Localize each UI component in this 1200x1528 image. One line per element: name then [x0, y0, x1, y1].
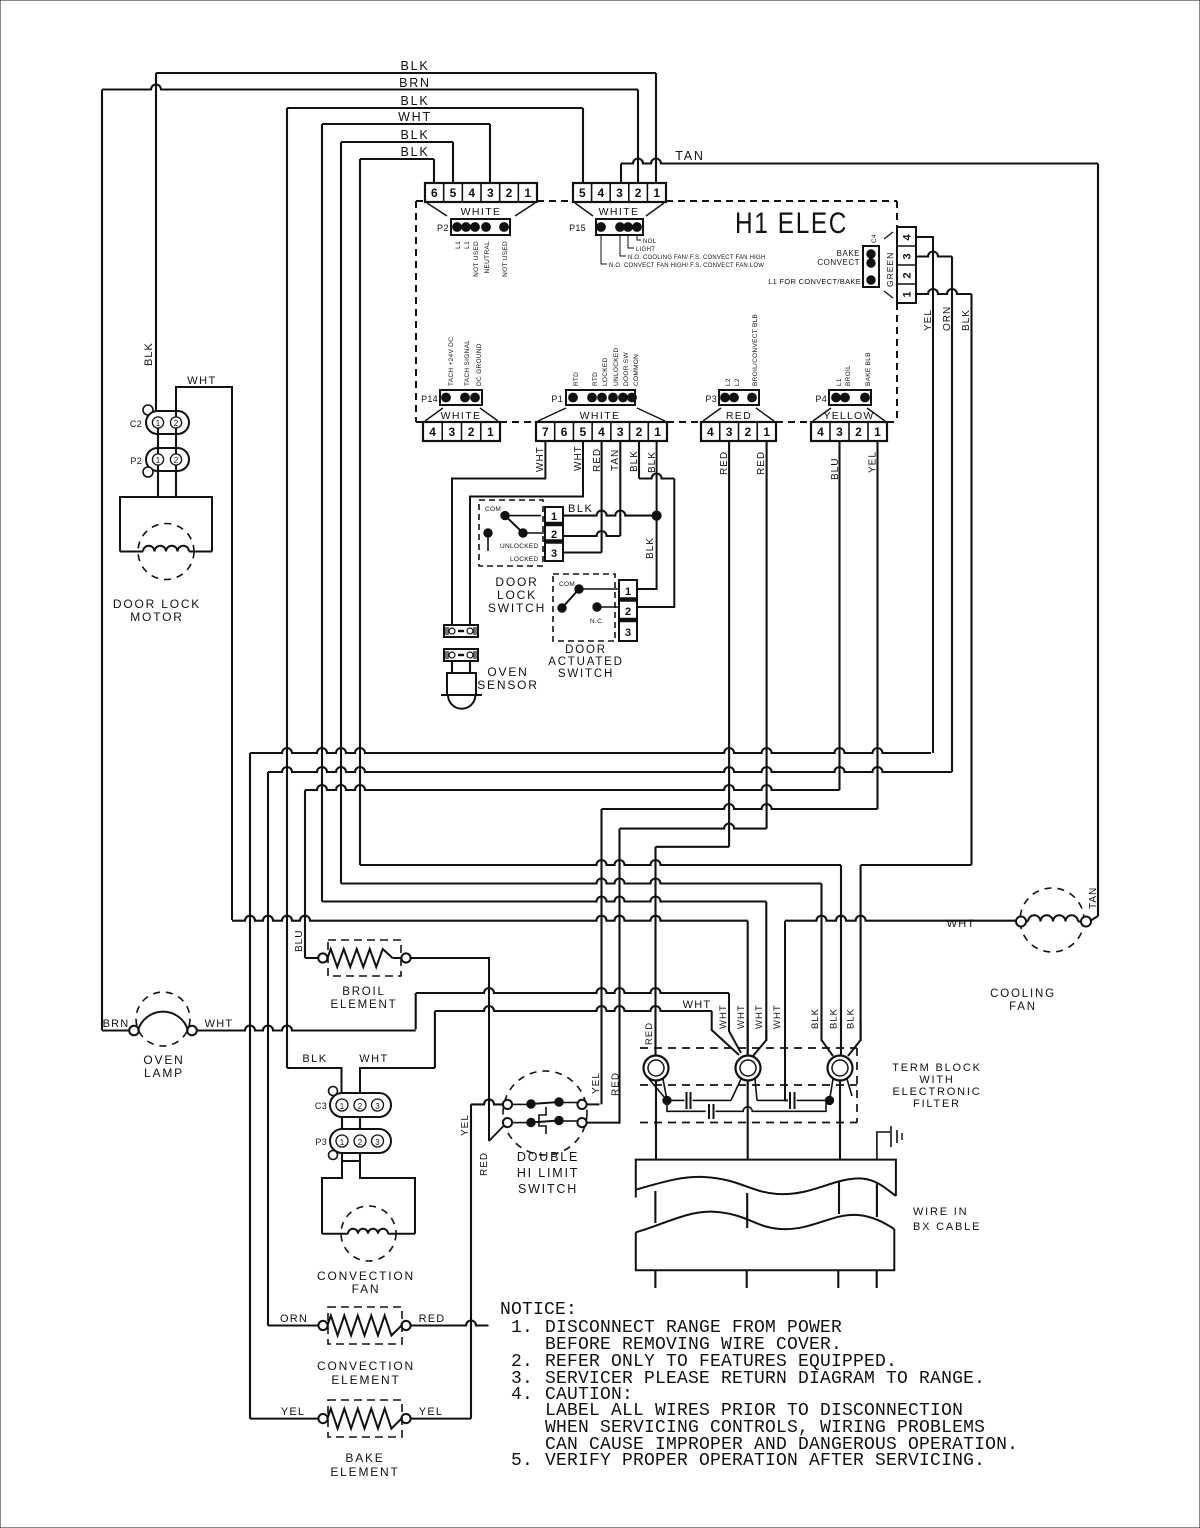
terminal tails to BX — [655, 1081, 657, 1160]
svg-text:OVEN: OVEN — [487, 665, 528, 679]
svg-text:CONVECTION: CONVECTION — [317, 1359, 415, 1373]
svg-text:LOCK: LOCK — [497, 588, 537, 602]
svg-text:WHT: WHT — [947, 918, 976, 930]
wire GREEN pin4 YEL — [916, 237, 933, 753]
svg-text:WHT: WHT — [535, 446, 546, 472]
svg-text:3: 3 — [551, 548, 557, 560]
wire GREEN pin1 BLK — [916, 289, 972, 294]
wires P2 to motor — [157, 465, 159, 497]
svg-text:SENSOR: SENSOR — [477, 678, 538, 692]
svg-text:ELEMENT: ELEMENT — [331, 999, 398, 1011]
svg-text:RED: RED — [479, 1152, 490, 1176]
svg-text:WHT: WHT — [359, 1053, 389, 1065]
svg-text:N.C.: N.C. — [590, 618, 604, 625]
connector strip P4 pins 4-1 — [811, 422, 887, 441]
svg-text:BLK: BLK — [400, 59, 429, 73]
bus wire H753 YEL — [250, 748, 931, 753]
svg-text:BLK: BLK — [829, 1008, 840, 1029]
svg-text:RED: RED — [756, 451, 767, 475]
svg-text:DC GROUND: DC GROUND — [476, 343, 483, 386]
double hi limit switch dashed circle — [503, 1071, 587, 1155]
svg-text:4.: 4. — [511, 1385, 533, 1405]
connector strip P14 pins 4-1 — [423, 422, 500, 441]
term block dashed box — [640, 1048, 857, 1123]
svg-text:YEL: YEL — [281, 1406, 305, 1418]
svg-text:DOOR: DOOR — [565, 644, 607, 656]
svg-text:2: 2 — [468, 425, 475, 439]
bus wire H772 ORN — [268, 767, 952, 772]
svg-text:C3: C3 — [315, 1101, 327, 1111]
svg-text:1: 1 — [763, 425, 770, 439]
connector C4 — [863, 246, 879, 287]
funnel wires terminal2 — [747, 1020, 749, 1056]
svg-text:RTD: RTD — [573, 372, 580, 386]
connector P3 — [719, 390, 759, 405]
svg-text:1: 1 — [625, 586, 631, 598]
svg-text:N.O. CONVECT FAN HIGH/ F.S. CO: N.O. CONVECT FAN HIGH/ F.S. CONVECT FAN … — [609, 263, 764, 269]
door actuated switch dashed box — [553, 574, 615, 641]
svg-text:2: 2 — [551, 529, 557, 541]
svg-text:BLK: BLK — [810, 1008, 821, 1029]
svg-text:BLK: BLK — [143, 342, 155, 366]
svg-text:1: 1 — [156, 419, 161, 428]
svg-text:LOCKED: LOCKED — [510, 556, 539, 563]
svg-text:ELEMENT: ELEMENT — [330, 1465, 399, 1479]
svg-text:MOTOR: MOTOR — [130, 610, 183, 624]
P15 pin leader labels — [601, 235, 641, 264]
svg-text:WHT: WHT — [736, 1004, 747, 1029]
svg-text:ELEMENT: ELEMENT — [331, 1373, 400, 1387]
bus wire H993 WHT — [416, 988, 729, 993]
svg-text:4: 4 — [598, 425, 605, 439]
svg-text:L2: L2 — [725, 378, 732, 386]
svg-text:WHT: WHT — [398, 110, 432, 124]
svg-text:P3: P3 — [705, 394, 717, 404]
bus wire H828 RED — [620, 824, 767, 829]
svg-text:RED: RED — [726, 410, 752, 422]
svg-text:ELECTRONIC: ELECTRONIC — [893, 1086, 982, 1098]
bus wire H920 WHT left — [232, 916, 748, 921]
svg-text:TERM BLOCK: TERM BLOCK — [892, 1062, 982, 1074]
svg-text:2: 2 — [174, 456, 179, 465]
svg-text:4: 4 — [468, 186, 475, 200]
bus wire H865R BLK — [861, 864, 972, 866]
svg-text:YEL: YEL — [591, 1072, 602, 1094]
svg-text:L1: L1 — [455, 241, 462, 249]
svg-text:1: 1 — [340, 1102, 345, 1111]
svg-text:4: 4 — [429, 425, 436, 439]
diagonal to RED vertical — [489, 1126, 504, 1142]
svg-text:YELLOW: YELLOW — [824, 410, 875, 422]
bus wire H865 BLK — [360, 860, 841, 865]
svg-text:BROIL: BROIL — [845, 365, 852, 386]
svg-text:3: 3 — [902, 253, 914, 259]
svg-text:BLK: BLK — [846, 1008, 857, 1029]
svg-text:2: 2 — [635, 186, 642, 200]
connector P14 — [440, 390, 482, 405]
svg-text:BX CABLE: BX CABLE — [913, 1221, 981, 1233]
svg-text:1: 1 — [156, 456, 161, 465]
bake element — [318, 1414, 327, 1423]
svg-text:FAN: FAN — [352, 1282, 381, 1296]
svg-text:TACH SIGNAL: TACH SIGNAL — [464, 340, 471, 386]
svg-text:BLK: BLK — [302, 1053, 327, 1065]
junction node BLK — [652, 511, 661, 520]
svg-text:BRN: BRN — [399, 76, 431, 90]
terminal 2 — [736, 1056, 761, 1081]
svg-text:WHT: WHT — [205, 1018, 234, 1030]
wires P3 to convection fan — [341, 1153, 343, 1161]
svg-text:CONVECT: CONVECT — [817, 258, 860, 267]
svg-text:OVEN: OVEN — [143, 1053, 184, 1067]
svg-text:BLK: BLK — [400, 128, 429, 142]
svg-text:WHITE: WHITE — [580, 410, 621, 422]
svg-text:3: 3 — [375, 1102, 380, 1111]
connector P2 — [451, 219, 510, 235]
notice text block — [500, 1300, 1018, 1471]
svg-text:WHT: WHT — [187, 375, 217, 387]
door lock switch contacts — [501, 511, 509, 519]
svg-text:VERIFY PROPER OPERATION AFTER: VERIFY PROPER OPERATION AFTER SERVICING. — [545, 1451, 985, 1471]
svg-text:P3: P3 — [315, 1137, 327, 1147]
svg-text:P2: P2 — [437, 223, 449, 233]
svg-text:COM: COM — [559, 581, 575, 588]
svg-text:SWITCH: SWITCH — [558, 668, 614, 680]
wire oven lamp WHT — [197, 1026, 416, 1031]
svg-text:DOOR LOCK: DOOR LOCK — [113, 597, 201, 611]
svg-text:7: 7 — [542, 425, 549, 439]
svg-text:3: 3 — [449, 425, 456, 439]
svg-text:YEL: YEL — [923, 309, 934, 331]
svg-text:CONVECTION: CONVECTION — [317, 1269, 415, 1283]
svg-text:4: 4 — [902, 234, 914, 241]
svg-text:COM: COM — [485, 506, 501, 513]
svg-text:BRN: BRN — [103, 1018, 130, 1030]
BX cable top — [635, 1160, 896, 1196]
svg-text:1: 1 — [524, 186, 531, 200]
svg-text:TAN: TAN — [1088, 887, 1099, 909]
svg-text:NOTICE:: NOTICE: — [500, 1300, 577, 1320]
wires C3-P3 — [341, 1117, 343, 1129]
connector strip P2 pins 6-1 — [425, 183, 537, 202]
BX internal wires — [654, 1191, 656, 1223]
svg-text:RTD: RTD — [592, 372, 599, 386]
svg-text:1: 1 — [487, 425, 494, 439]
svg-text:1: 1 — [874, 425, 881, 439]
svg-text:UNLOCKED: UNLOCKED — [613, 347, 620, 386]
svg-text:YEL: YEL — [419, 1406, 443, 1418]
connector strip P1 pins 7-1 — [536, 422, 667, 441]
oven sensor bulb — [447, 673, 476, 695]
svg-text:BROIL: BROIL — [342, 986, 386, 998]
connector P15 — [596, 219, 643, 235]
svg-text:2: 2 — [902, 272, 914, 278]
svg-text:1: 1 — [654, 425, 661, 439]
svg-text:WHT: WHT — [772, 1004, 783, 1029]
svg-text:P14: P14 — [421, 394, 438, 404]
bus wire H883 BLK — [341, 879, 822, 884]
funnel wires terminal3 — [822, 1020, 834, 1056]
svg-text:LOCKED: LOCKED — [602, 357, 609, 386]
svg-text:P2: P2 — [130, 456, 142, 466]
connector P1 — [566, 390, 635, 405]
svg-text:1: 1 — [653, 186, 660, 200]
svg-text:2: 2 — [855, 425, 862, 439]
svg-text:H1 ELEC: H1 ELEC — [735, 207, 848, 240]
BX wave 2 — [636, 1212, 895, 1233]
convection fan box — [322, 1161, 415, 1234]
svg-text:P1: P1 — [551, 394, 563, 404]
svg-text:1: 1 — [340, 1138, 345, 1147]
svg-text:2: 2 — [358, 1102, 363, 1111]
svg-text:5: 5 — [579, 425, 586, 439]
capacitor lower row — [667, 1100, 706, 1111]
svg-text:WHITE: WHITE — [461, 206, 502, 218]
svg-text:COMMON: COMMON — [633, 354, 640, 386]
svg-text:NOL: NOL — [643, 239, 657, 245]
convection element — [318, 1321, 327, 1330]
svg-text:DOOR: DOOR — [495, 575, 538, 589]
connector P3 left — [330, 1129, 391, 1153]
door lock switch dashed box — [479, 500, 543, 566]
svg-text:SWITCH: SWITCH — [488, 601, 546, 615]
svg-text:BLK: BLK — [568, 503, 593, 515]
svg-text:BLK: BLK — [400, 94, 429, 108]
svg-text:HI LIMIT: HI LIMIT — [517, 1166, 579, 1180]
H1 ELEC control board dashed outline — [416, 201, 897, 422]
svg-text:2: 2 — [636, 425, 643, 439]
svg-text:2: 2 — [358, 1138, 363, 1147]
svg-text:C2: C2 — [130, 419, 142, 429]
connector C3 — [329, 1087, 338, 1096]
svg-text:1.: 1. — [511, 1318, 533, 1338]
svg-text:L1: L1 — [836, 378, 843, 386]
svg-text:WHITE: WHITE — [599, 206, 640, 218]
broil element — [318, 953, 327, 962]
svg-text:L1 FOR CONVECT/BAKE: L1 FOR CONVECT/BAKE — [768, 277, 861, 286]
svg-text:2: 2 — [745, 425, 752, 439]
svg-text:P15: P15 — [569, 223, 586, 233]
svg-text:SWITCH: SWITCH — [518, 1182, 578, 1196]
door lock switch terminals 1 2 3 — [545, 507, 563, 561]
svg-text:3: 3 — [487, 186, 494, 200]
connector P2 left — [146, 448, 189, 471]
svg-text:L2: L2 — [734, 378, 741, 386]
svg-text:N.O. COOLING FAN/ F.S. CONVECT: N.O. COOLING FAN/ F.S. CONVECT FAN HIGH — [628, 255, 765, 261]
wire GREEN pin3 ORN — [916, 252, 952, 257]
bus wire H901 WHT — [322, 897, 766, 902]
svg-text:COOLING: COOLING — [990, 988, 1056, 1000]
ground symbol — [877, 1132, 890, 1160]
svg-text:3: 3 — [726, 425, 733, 439]
connector strip P15 pins 5-1 — [573, 183, 666, 202]
svg-text:LIGHT: LIGHT — [636, 247, 655, 253]
svg-text:ORN: ORN — [280, 1313, 308, 1325]
capacitor filter row — [649, 1079, 667, 1100]
hi limit bottom row — [503, 1118, 512, 1127]
terminal 3 — [828, 1056, 853, 1081]
svg-text:NOT USED: NOT USED — [473, 241, 480, 277]
svg-text:TACH +24V DC: TACH +24V DC — [448, 337, 455, 386]
svg-text:3: 3 — [616, 186, 623, 200]
svg-text:NOT USED: NOT USED — [502, 241, 509, 277]
svg-text:P4: P4 — [815, 394, 827, 404]
svg-text:BLU: BLU — [294, 930, 305, 952]
svg-text:BAKE BLB: BAKE BLB — [865, 352, 872, 386]
svg-text:3: 3 — [836, 425, 843, 439]
svg-text:L1: L1 — [464, 241, 471, 249]
svg-text:ORN: ORN — [942, 306, 953, 331]
bus wire H920 WHT right to cooling fan — [785, 916, 1016, 921]
hi limit top row — [471, 1099, 503, 1104]
door lock motor — [120, 497, 212, 552]
svg-text:FAN: FAN — [1009, 1001, 1037, 1013]
svg-text:2: 2 — [174, 419, 179, 428]
connector P4 — [829, 390, 871, 405]
wires C2-P2 — [157, 428, 159, 454]
svg-text:TAN: TAN — [675, 149, 704, 163]
wire door lock sw2 TAN — [563, 531, 620, 536]
svg-text:3: 3 — [375, 1138, 380, 1147]
svg-text:4: 4 — [817, 425, 824, 439]
bus wire H1011 WHT — [435, 1006, 712, 1011]
svg-text:NEUTRAL: NEUTRAL — [484, 241, 491, 274]
svg-text:BLK: BLK — [961, 309, 972, 331]
svg-text:YEL: YEL — [460, 1114, 471, 1136]
svg-text:UNLOCKED: UNLOCKED — [500, 543, 539, 550]
wire broil to H993 — [411, 958, 489, 1141]
wire door lock sw3 RED — [563, 551, 602, 553]
connector strip P3 pins 4-1 — [701, 422, 776, 441]
bus wire H809 YEL — [602, 804, 878, 809]
svg-text:WITH: WITH — [919, 1074, 954, 1086]
svg-text:BAKE: BAKE — [837, 249, 860, 258]
svg-text:4: 4 — [707, 425, 714, 439]
svg-text:3: 3 — [617, 425, 624, 439]
svg-text:LAMP: LAMP — [144, 1066, 184, 1080]
svg-text:RED: RED — [419, 1313, 446, 1325]
svg-text:1: 1 — [551, 511, 557, 523]
hi limit mechanical link — [539, 1107, 546, 1134]
svg-text:ACTUATED: ACTUATED — [548, 656, 624, 668]
connector C2 — [143, 405, 153, 415]
BX below wires — [654, 1270, 656, 1288]
svg-text:GREEN: GREEN — [885, 252, 895, 287]
svg-text:C4: C4 — [871, 234, 878, 243]
svg-text:6: 6 — [561, 425, 568, 439]
svg-text:WIRE IN: WIRE IN — [913, 1206, 968, 1218]
svg-text:5: 5 — [450, 186, 457, 200]
svg-text:WHT: WHT — [718, 1004, 729, 1029]
svg-text:BLK: BLK — [645, 537, 656, 559]
svg-text:RED: RED — [611, 1072, 622, 1096]
svg-text:2: 2 — [625, 606, 631, 618]
svg-text:WHT: WHT — [754, 1004, 765, 1029]
svg-text:BAKE: BAKE — [345, 1451, 384, 1465]
BX bottom box — [636, 1229, 895, 1270]
bus wire H790 BLU — [305, 785, 840, 790]
svg-text:WHT: WHT — [683, 999, 712, 1011]
svg-text:1: 1 — [902, 291, 914, 297]
svg-text:FILTER: FILTER — [913, 1098, 961, 1110]
svg-text:BROIL/CONVECT BLB: BROIL/CONVECT BLB — [752, 314, 759, 386]
bus wire H847 RED — [656, 846, 730, 848]
oven sensor connector blocks — [444, 625, 478, 637]
svg-text:DOUBLE: DOUBLE — [517, 1150, 579, 1164]
svg-text:2: 2 — [506, 186, 513, 200]
BX wave 1 — [636, 1177, 896, 1196]
svg-text:RED: RED — [644, 1022, 655, 1045]
door actuated switch terminals 1 2 3 — [619, 580, 637, 641]
svg-text:3: 3 — [625, 627, 631, 639]
svg-text:4: 4 — [598, 186, 605, 200]
svg-text:BLK: BLK — [400, 145, 429, 159]
svg-text:6: 6 — [431, 186, 438, 200]
svg-text:5.: 5. — [511, 1451, 533, 1471]
svg-text:WHITE: WHITE — [441, 410, 482, 422]
terminal 1 — [644, 1056, 669, 1081]
svg-text:5: 5 — [579, 186, 586, 200]
svg-text:DOOR SW: DOOR SW — [623, 352, 630, 386]
oven lamp — [136, 992, 190, 1046]
